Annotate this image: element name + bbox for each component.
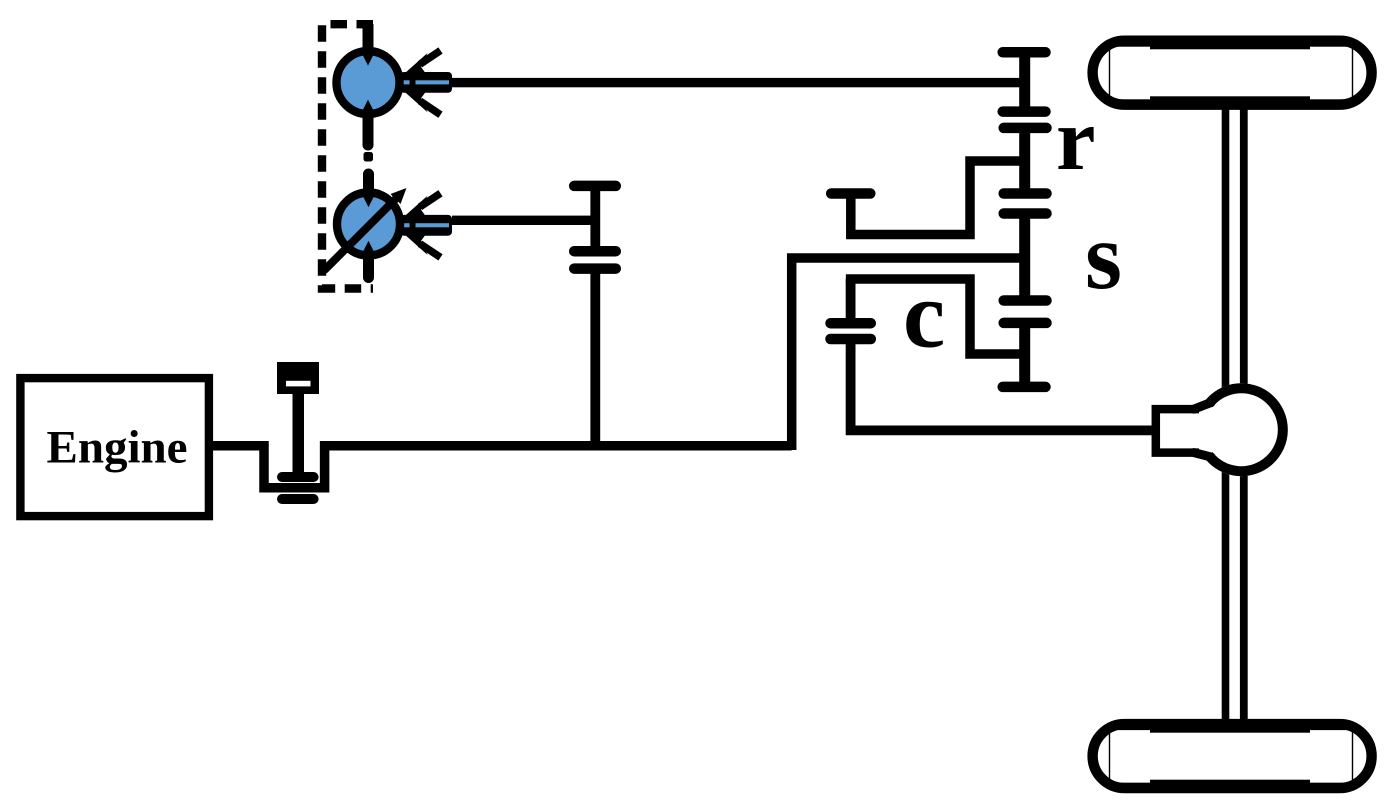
pump P2 inner triangle top — [363, 196, 374, 207]
axle shaft lower double line — [1222, 432, 1248, 724]
pump P1 rotation arrow upper — [405, 51, 441, 77]
damper stem — [293, 393, 305, 476]
pump P2 shaft blue stripe — [402, 223, 410, 227]
svg-text:c: c — [903, 262, 945, 368]
pump P2 variable displacement arrow — [325, 188, 407, 270]
planetary main stem segments — [1019, 52, 1030, 111]
planetary bar B — [1003, 106, 1046, 117]
pump P1 top stub — [363, 24, 374, 50]
pump P2 circle — [337, 193, 400, 256]
differential neck flare top — [1194, 403, 1211, 410]
pump P2 rotation arrow lower — [405, 231, 441, 257]
wire pump P2 to countershaft gear — [452, 216, 596, 225]
differential neck flare bottom — [1194, 453, 1211, 457]
svg-text:s: s — [1085, 203, 1122, 309]
pto gear bar left — [831, 188, 870, 199]
damper square slot — [286, 381, 311, 387]
planetary bar F — [1004, 295, 1047, 306]
pump P2 inner triangle bottom — [363, 241, 374, 252]
wire engine output with U dip under damper — [213, 446, 792, 488]
countershaft gear bar low — [574, 263, 616, 274]
wheel front — [1093, 41, 1372, 105]
damper plate lower — [277, 494, 319, 504]
pump P2 rotation arrow upper — [405, 193, 441, 219]
planetary bar E — [1004, 208, 1047, 219]
clutch c plate upper — [831, 318, 871, 329]
wire pump P1 to ring gear — [452, 78, 1024, 87]
differential circle arc — [1209, 388, 1283, 471]
countershaft gear bar top — [574, 181, 616, 192]
pump P1 rotation arrow lower — [405, 89, 441, 115]
svg-text:r: r — [1056, 91, 1096, 189]
planetary bar A — [1003, 47, 1046, 58]
pump P1 shaft bar — [400, 72, 452, 93]
differential circle fill — [1195, 383, 1288, 476]
pump P2 shaft bar — [400, 215, 452, 236]
wire riser to sun gear line — [792, 258, 1025, 450]
differential input rect — [1156, 409, 1199, 453]
pump P1 shaft blue stripe — [402, 80, 410, 84]
clutch c plate lower — [831, 334, 871, 345]
pump P1 circle — [337, 51, 400, 114]
dashed pump enclosure — [322, 24, 373, 288]
countershaft gear stem upper — [590, 186, 600, 251]
clutch c lower shaft — [851, 339, 1152, 430]
axle shaft upper double line — [1222, 104, 1248, 394]
damper mass square — [277, 362, 319, 394]
planetary bar H — [1003, 382, 1046, 393]
pump P2 bottom stub — [363, 256, 374, 278]
pump P1 inner triangle top — [363, 55, 374, 66]
engine box — [20, 378, 209, 516]
countershaft gear stem to main shaft — [590, 269, 600, 446]
wheel rear — [1093, 724, 1372, 788]
pump P2 top stub — [363, 174, 374, 192]
carrier bracket wire — [851, 279, 1025, 354]
pto gear link to ring — [851, 161, 1025, 235]
svg-text:Engine: Engine — [46, 422, 187, 474]
pump P1 bottom stub — [363, 116, 374, 145]
damper plate upper — [277, 472, 319, 482]
planetary bar D — [1004, 188, 1047, 199]
pump P1 inner triangle bottom — [363, 100, 374, 111]
planetary bar G — [1004, 318, 1047, 329]
planetary bar C — [1004, 123, 1047, 134]
clutch c upper shaft — [846, 279, 856, 318]
countershaft gear bar mid — [574, 246, 616, 257]
dash-dot dot between pumps — [364, 152, 374, 162]
